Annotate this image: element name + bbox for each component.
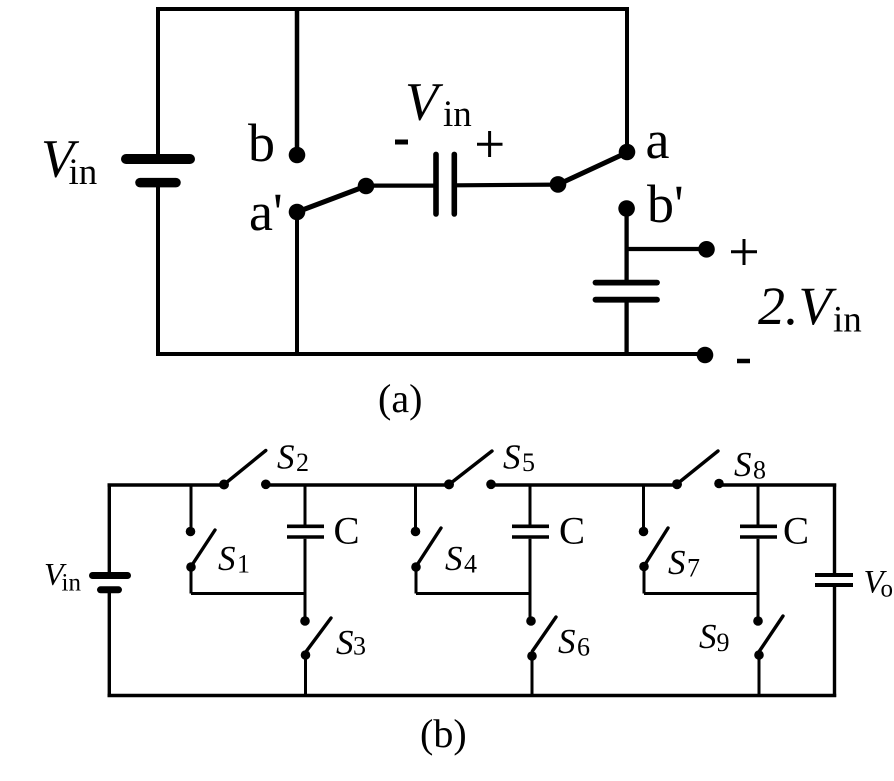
battery Vin (a) [126, 159, 190, 183]
label Vin flying cap [405, 72, 472, 136]
wire left rail upper (a) [156, 7, 160, 156]
svg-text:S: S [277, 438, 295, 477]
svg-text:C: C [334, 510, 360, 553]
svg-text:2: 2 [296, 448, 309, 477]
switch S3 [300, 616, 331, 697]
svg-text:b: b [248, 113, 275, 173]
svg-text:4: 4 [464, 550, 477, 579]
svg-text:in: in [833, 300, 862, 341]
label S6 [558, 622, 590, 662]
switch S7 [639, 484, 668, 571]
svg-text:9: 9 [717, 628, 730, 657]
node minus terminal [697, 347, 714, 364]
label minus flying cap [395, 140, 408, 145]
label minus output (a) [737, 359, 750, 364]
wire right rail upper (b) [833, 484, 836, 574]
label plus output (a) [731, 239, 757, 265]
switch S2 [219, 451, 271, 490]
wire top rail segment 4 (b) [719, 483, 836, 486]
label S2 [277, 438, 309, 478]
node pivot left [358, 178, 375, 195]
switch S5 [444, 451, 496, 489]
label 2.Vin [758, 276, 862, 341]
node b [289, 147, 306, 164]
svg-text:S: S [218, 539, 236, 578]
wire pivot to flying cap [366, 184, 434, 188]
label S9 [699, 617, 730, 657]
svg-text:S: S [699, 617, 717, 656]
wire bottom rail (b) [108, 694, 837, 697]
svg-text:(a): (a) [378, 376, 422, 421]
svg-text:2.V: 2.V [758, 276, 838, 336]
node pivot right [550, 176, 567, 193]
capacitor C1 [287, 484, 324, 618]
svg-text:(b): (b) [420, 711, 467, 756]
label S3 [336, 623, 366, 662]
label Vin (b) [44, 556, 81, 597]
label S8 [734, 445, 766, 485]
svg-text:S: S [336, 623, 354, 662]
label plus flying cap [477, 131, 503, 157]
wire top rail (a) [156, 7, 629, 11]
wire S1 to cap1 [190, 567, 193, 594]
capacitor C2 [512, 484, 549, 618]
wire bottom rail (a) [156, 352, 705, 356]
capacitor C3 [740, 484, 777, 618]
wire tap to plus terminal [627, 247, 706, 251]
switch blade pivot to a [558, 153, 627, 185]
label Vo [864, 565, 894, 603]
wire right rail lower (b) [833, 587, 836, 697]
label S1 [218, 539, 250, 579]
svg-text:C: C [783, 510, 809, 553]
svg-text:S: S [734, 445, 752, 484]
svg-text:o: o [881, 576, 894, 603]
wire b' down to output cap [624, 209, 628, 281]
wire top rail segment 1 (b) [108, 483, 224, 486]
svg-text:a: a [646, 110, 670, 170]
svg-text:b': b' [647, 174, 684, 234]
node a' [289, 204, 306, 221]
node a [619, 144, 636, 161]
battery Vin (b) [93, 576, 128, 590]
capacitor flying (a) [436, 154, 454, 214]
wire top rail segment 3 (b) [491, 483, 677, 486]
switch S4 [411, 484, 441, 572]
svg-text:S: S [558, 622, 576, 661]
label S4 [445, 539, 477, 579]
svg-text:S: S [668, 543, 686, 582]
wire S4 to cap2 [415, 567, 418, 594]
switch S9 [753, 616, 783, 697]
capacitor output (a) [596, 283, 658, 300]
wire right rail (a) [625, 7, 629, 152]
svg-text:8: 8 [753, 456, 766, 485]
label S7 [668, 543, 700, 583]
switch S6 [526, 616, 556, 697]
svg-text:V: V [405, 72, 444, 132]
svg-text:S: S [445, 539, 463, 578]
switch S8 [672, 451, 724, 489]
svg-text:6: 6 [577, 633, 590, 662]
svg-text:a': a' [249, 182, 283, 242]
wire flying cap to pivot right [456, 183, 559, 188]
node plus terminal [698, 241, 715, 258]
svg-text:3: 3 [353, 632, 366, 661]
wire output cap to bottom rail [624, 301, 628, 354]
wire left rail lower (a) [156, 186, 160, 354]
wire b branch [295, 9, 300, 150]
node b' [618, 200, 635, 217]
wire S7 to cap3 [643, 567, 646, 594]
label Vin (a) [41, 129, 97, 194]
svg-text:7: 7 [687, 554, 700, 583]
wire left rail lower (b) [108, 593, 111, 697]
svg-text:S: S [503, 438, 521, 477]
svg-text:5: 5 [522, 448, 535, 477]
switch S1 [186, 484, 215, 572]
switch blade a' to pivot [297, 186, 366, 212]
label S5 [503, 438, 535, 478]
svg-text:in: in [62, 570, 82, 597]
wire a' branch [295, 212, 299, 354]
capacitor output Vo (b) [815, 575, 853, 585]
wire left rail upper (b) [108, 484, 111, 573]
svg-text:C: C [559, 510, 585, 553]
svg-text:1: 1 [237, 550, 250, 579]
svg-text:in: in [443, 94, 472, 135]
svg-text:in: in [69, 152, 98, 193]
wire top rail segment 2 (b) [266, 483, 449, 486]
